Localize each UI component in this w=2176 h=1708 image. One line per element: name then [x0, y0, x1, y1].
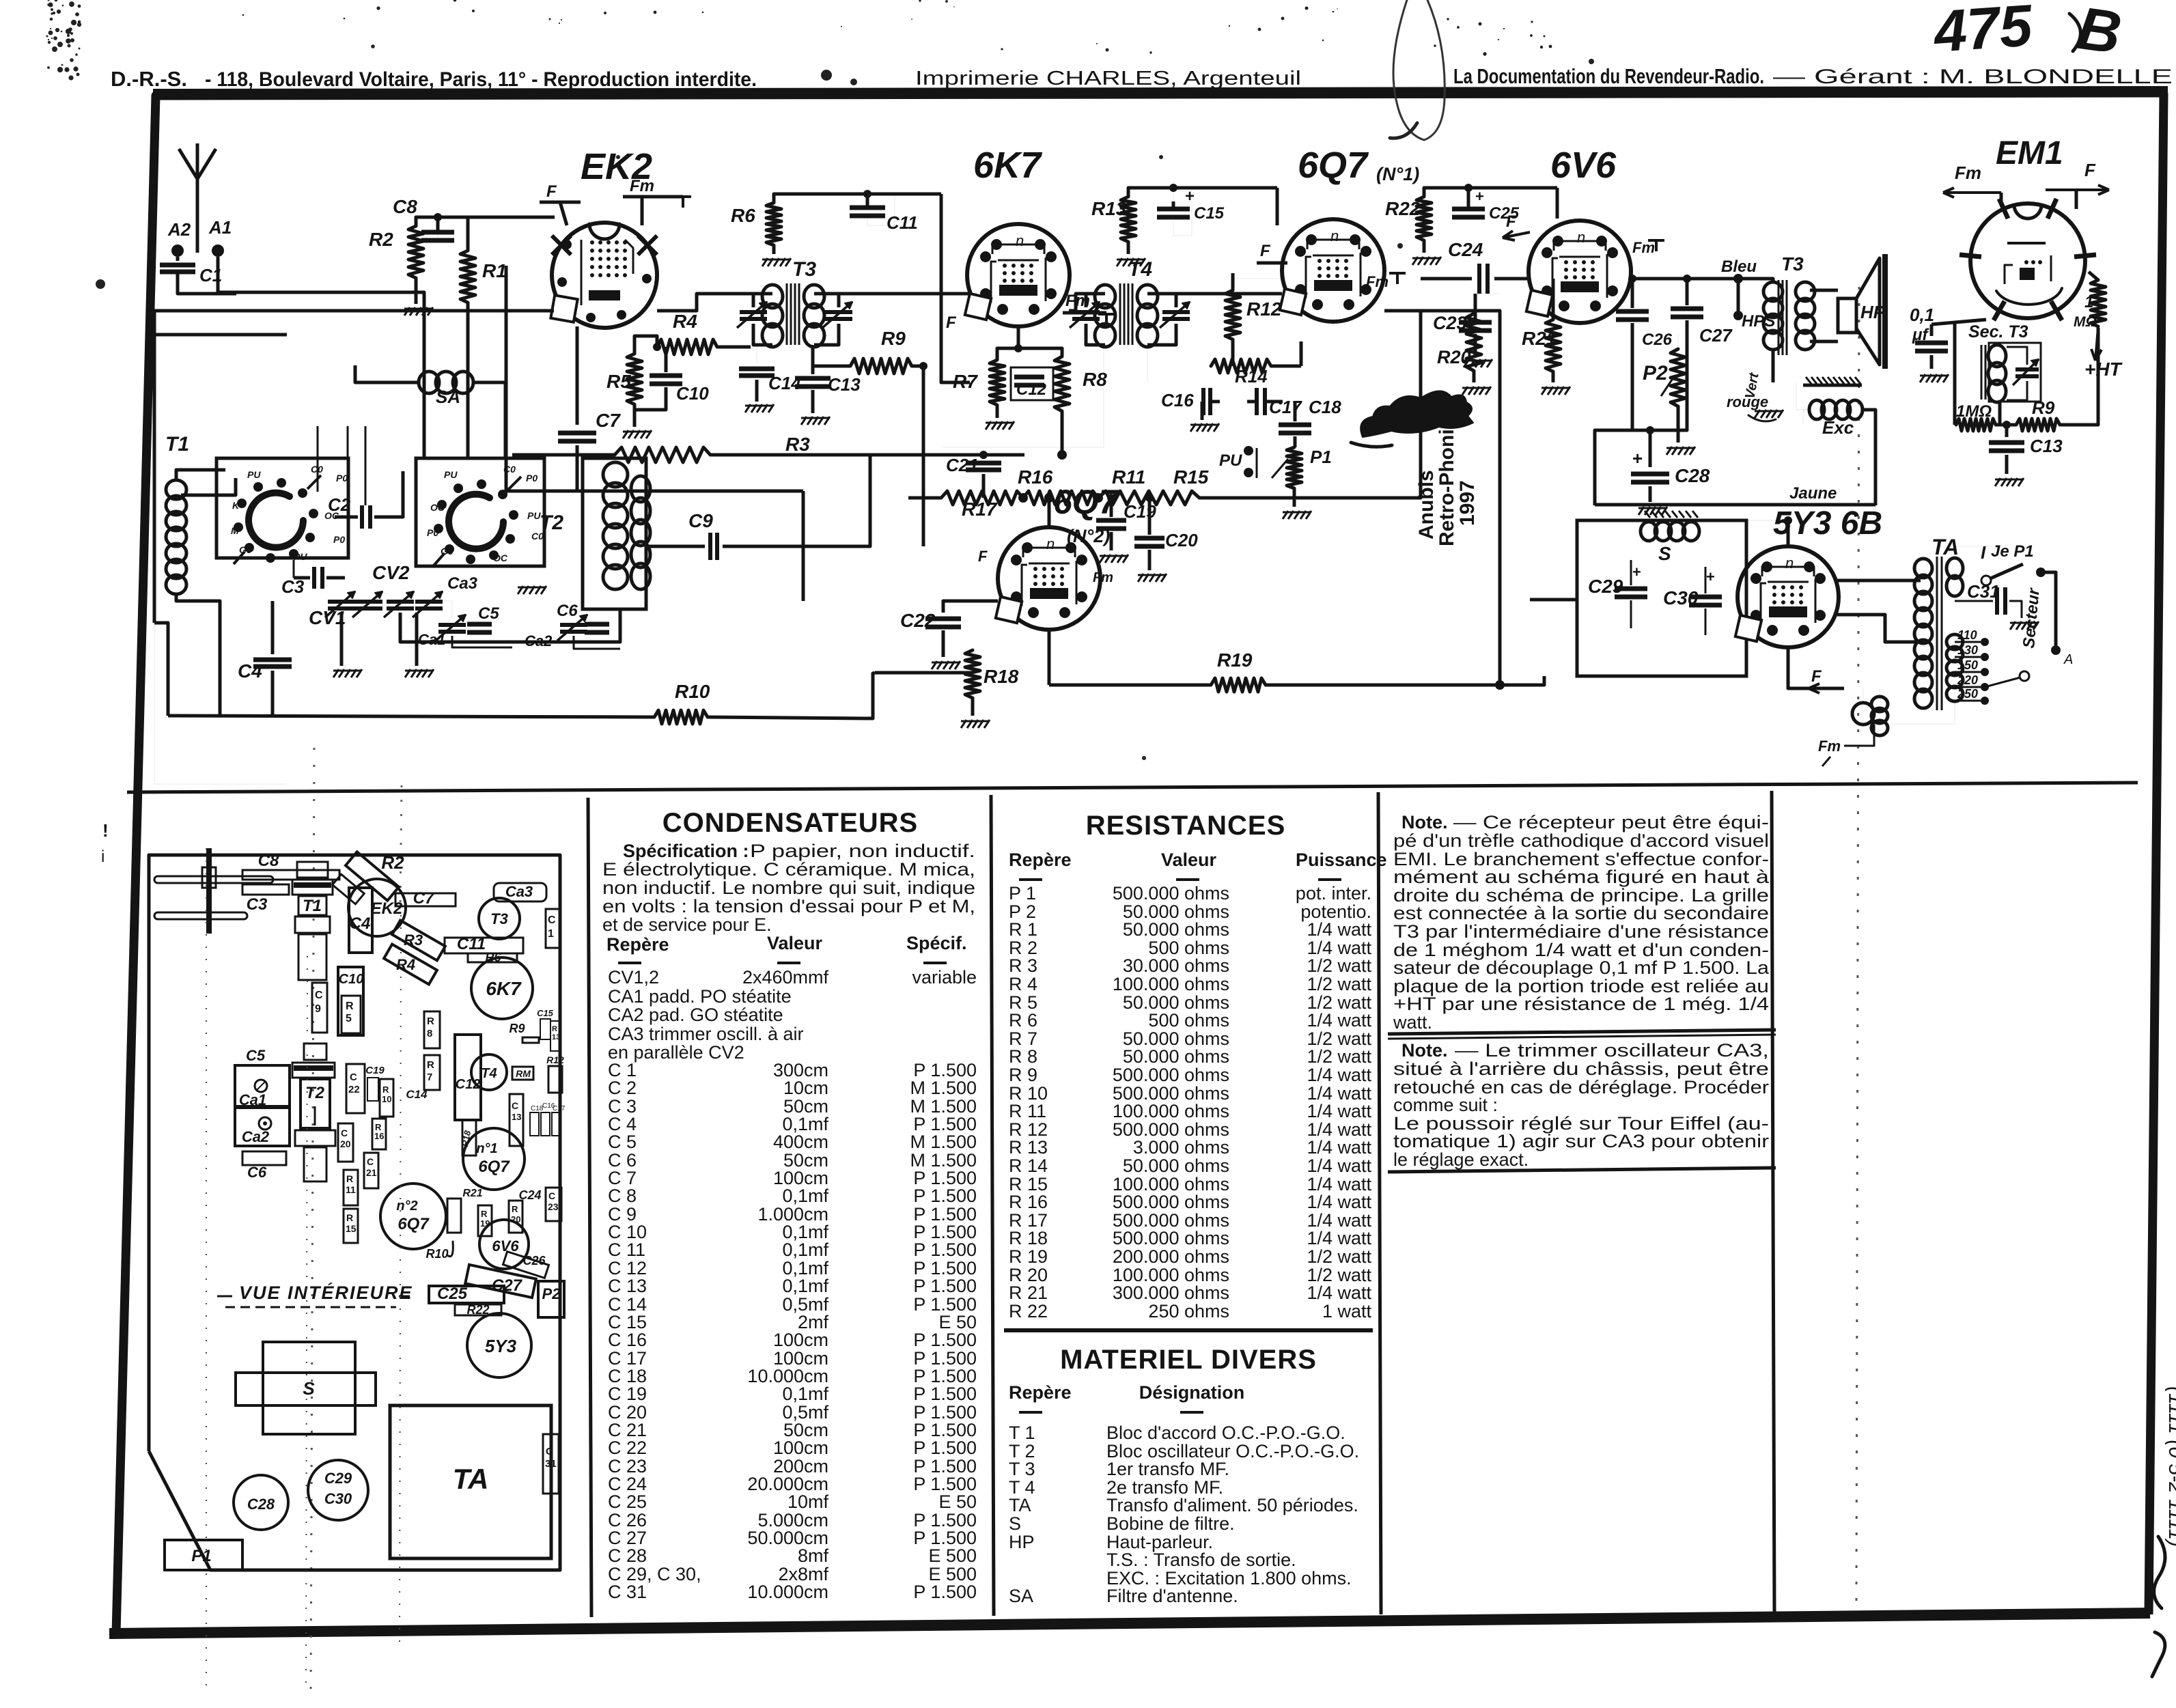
svg-text:C19: C19	[365, 1065, 385, 1076]
svg-text:R 13: R 13	[1009, 1137, 1048, 1158]
svg-text:16: 16	[374, 1131, 384, 1141]
svg-text:M 1.500: M 1.500	[910, 1132, 977, 1152]
svg-text:500.000 ohms: 500.000 ohms	[1113, 883, 1229, 904]
svg-text:1/2 watt: 1/2 watt	[1307, 974, 1371, 994]
svg-text:S: S	[303, 1378, 315, 1399]
svg-text:C26: C26	[1642, 331, 1673, 349]
svg-text:20: 20	[340, 1138, 351, 1149]
svg-text:R10: R10	[675, 681, 710, 702]
svg-text:F: F	[2084, 160, 2096, 180]
svg-text:C29: C29	[324, 1470, 352, 1487]
svg-text:C11: C11	[887, 212, 918, 233]
svg-text:1/4 watt: 1/4 watt	[1307, 1228, 1371, 1248]
svg-text:P papier, non inductif.: P papier, non inductif.	[750, 841, 975, 861]
svg-text:comme suit :: comme suit :	[1393, 1095, 1498, 1115]
svg-text:SA: SA	[1009, 1586, 1033, 1606]
svg-text:C 31: C 31	[608, 1582, 647, 1602]
svg-text:1/2 watt: 1/2 watt	[1307, 1246, 1371, 1267]
svg-text:EM1: EM1	[1996, 135, 2063, 171]
svg-text:7: 7	[427, 1072, 432, 1083]
svg-text:C 13: C 13	[608, 1276, 647, 1296]
svg-text:C16: C16	[1161, 390, 1194, 410]
svg-text:MΩ: MΩ	[2074, 314, 2097, 330]
svg-text:+: +	[1185, 187, 1195, 206]
svg-text:R 8: R 8	[1009, 1046, 1037, 1067]
svg-text:P 1.500: P 1.500	[913, 1186, 977, 1206]
svg-text:13: 13	[552, 1033, 560, 1041]
svg-text:C: C	[350, 1072, 357, 1083]
svg-text:et de service pour E.: et de service pour E.	[602, 914, 772, 935]
svg-text:C: C	[546, 1446, 553, 1457]
svg-text:21: 21	[366, 1167, 377, 1178]
svg-text:R17: R17	[962, 499, 998, 520]
svg-text:R: R	[427, 1016, 434, 1027]
svg-text:R20: R20	[1437, 347, 1471, 367]
svg-text:R21: R21	[462, 1188, 482, 1199]
svg-text:8mf: 8mf	[798, 1545, 829, 1566]
svg-text:T 1: T 1	[1009, 1423, 1035, 1443]
svg-text:Fm: Fm	[1818, 738, 1841, 755]
svg-text:P 1.500: P 1.500	[913, 1276, 977, 1296]
svg-text:R 16: R 16	[1009, 1192, 1048, 1212]
svg-text:n°2: n°2	[396, 1199, 417, 1214]
svg-text:rouge: rouge	[1727, 393, 1768, 410]
svg-text:pé d'un trèfle cathodique: pé d'un trèfle cathodique d'accord visue…	[1393, 830, 1769, 851]
svg-text:M: M	[231, 525, 239, 536]
svg-text:8: 8	[427, 1028, 432, 1039]
svg-text:C13: C13	[828, 374, 861, 395]
svg-text:pot. inter.: pot. inter.	[1296, 883, 1371, 904]
svg-text:T1: T1	[165, 433, 189, 456]
svg-text:R 6: R 6	[1009, 1010, 1037, 1031]
svg-text:+HT par une résistance de: +HT par une résistance de 1 még. 1/4	[1393, 994, 1769, 1014]
svg-text:R7: R7	[953, 371, 978, 392]
svg-text:1/2 watt: 1/2 watt	[1307, 1046, 1371, 1067]
svg-text:R13: R13	[1091, 198, 1127, 219]
svg-text:variable: variable	[912, 967, 977, 988]
svg-text:watt.: watt.	[1393, 1012, 1432, 1033]
svg-text:Repère: Repère	[606, 934, 669, 955]
svg-text:R4: R4	[673, 311, 697, 332]
svg-text:130: 130	[1957, 643, 1978, 657]
svg-text:100cm: 100cm	[773, 1330, 828, 1350]
svg-text:C18: C18	[531, 1105, 544, 1112]
svg-text:Puissance: Puissance	[1296, 850, 1387, 870]
svg-text:C6: C6	[557, 602, 578, 620]
svg-text:10cm: 10cm	[783, 1078, 828, 1098]
svg-text:R16: R16	[1018, 466, 1053, 488]
svg-text:i: i	[101, 848, 104, 866]
svg-text:C 8: C 8	[608, 1186, 637, 1206]
svg-text:R1: R1	[482, 260, 507, 281]
svg-text:E électrolytique. C céramiq: E électrolytique. C céramique. M mica,	[602, 859, 975, 880]
svg-text:R 9: R 9	[1009, 1065, 1037, 1085]
svg-text:C4: C4	[238, 660, 262, 682]
svg-text:C17: C17	[553, 1105, 566, 1112]
svg-text:Valeur: Valeur	[1161, 850, 1217, 870]
svg-text:6K7: 6K7	[973, 145, 1043, 186]
svg-text:A1: A1	[208, 217, 232, 238]
svg-text:30.000 ohms: 30.000 ohms	[1123, 955, 1229, 976]
svg-text:100cm: 100cm	[773, 1438, 828, 1458]
svg-text:15: 15	[346, 1223, 357, 1234]
svg-text:+: +	[1632, 563, 1641, 580]
svg-text:— Ce récepteur peut être: — Ce récepteur peut être équi-	[1453, 812, 1769, 832]
svg-text:C24: C24	[1448, 239, 1483, 260]
svg-text:C: C	[315, 990, 323, 1001]
svg-text:C 25: C 25	[608, 1492, 647, 1512]
svg-text:R 14: R 14	[1009, 1156, 1048, 1176]
svg-text:300.000 ohms: 300.000 ohms	[1113, 1283, 1229, 1303]
svg-text:+: +	[1475, 188, 1484, 205]
svg-text:P0: P0	[333, 534, 345, 545]
svg-text:C30: C30	[324, 1490, 352, 1507]
svg-text:VUE INTÉRIEURE: VUE INTÉRIEURE	[239, 1282, 413, 1303]
svg-text:C 16: C 16	[608, 1330, 647, 1350]
svg-text:R4: R4	[396, 956, 415, 973]
svg-text:Spécification :: Spécification :	[623, 841, 749, 861]
svg-text:C15: C15	[1194, 204, 1225, 223]
svg-text:R9: R9	[509, 1022, 525, 1035]
svg-text:1MΩ: 1MΩ	[1956, 402, 1992, 421]
svg-text:Exc: Exc	[1822, 417, 1854, 438]
svg-text:R8: R8	[1083, 369, 1107, 390]
svg-text:mément au schéma figuré: mément au schéma figuré en haut à	[1393, 867, 1770, 887]
svg-text:T3: T3	[792, 258, 816, 281]
svg-text:50.000 ohms: 50.000 ohms	[1123, 1046, 1229, 1067]
svg-text:F: F	[1260, 242, 1271, 260]
svg-text:n: n	[1046, 535, 1055, 552]
svg-text:R 19: R 19	[1009, 1246, 1048, 1267]
svg-text:C15: C15	[537, 1008, 554, 1018]
svg-text:F: F	[978, 548, 988, 565]
svg-text:R10: R10	[426, 1247, 448, 1261]
svg-text:250 ohms: 250 ohms	[1148, 1301, 1229, 1321]
svg-text:T1: T1	[303, 897, 322, 915]
svg-text:Bobine de filtre.: Bobine de filtre.	[1106, 1513, 1235, 1534]
svg-text:6Q7: 6Q7	[1298, 145, 1369, 186]
svg-text:50.000 ohms: 50.000 ohms	[1123, 1156, 1229, 1176]
svg-text:11: 11	[346, 1184, 356, 1195]
svg-text:OC: OC	[430, 502, 445, 513]
svg-text:Retro-Phonia: Retro-Phonia	[1436, 417, 1458, 546]
svg-text:200.000 ohms: 200.000 ohms	[1113, 1246, 1229, 1267]
svg-text:C11: C11	[457, 935, 486, 953]
svg-text:C8: C8	[393, 196, 417, 217]
svg-text:500.000 ohms: 500.000 ohms	[1113, 1065, 1229, 1085]
svg-text:R9: R9	[881, 328, 906, 349]
svg-text:100.000 ohms: 100.000 ohms	[1113, 1101, 1229, 1121]
svg-text:T2: T2	[540, 512, 563, 534]
svg-text:13: 13	[512, 1112, 521, 1122]
svg-text:1/4 watt: 1/4 watt	[1307, 1192, 1371, 1212]
svg-text:Je P1: Je P1	[1991, 542, 2034, 561]
svg-text:C4: C4	[350, 914, 371, 933]
svg-text:C5: C5	[478, 604, 499, 623]
svg-text:1/2 watt: 1/2 watt	[1307, 955, 1371, 976]
svg-text:Désignation: Désignation	[1139, 1382, 1245, 1403]
svg-text:R: R	[512, 1204, 518, 1214]
svg-text:C31: C31	[1967, 581, 2000, 602]
svg-text:CV2: CV2	[372, 562, 410, 583]
svg-text:3.000 ohms: 3.000 ohms	[1133, 1137, 1229, 1158]
svg-text:0,1: 0,1	[1910, 305, 1934, 325]
svg-text:1/4 watt: 1/4 watt	[1307, 919, 1371, 940]
svg-text:C8: C8	[258, 852, 279, 870]
svg-text:T3: T3	[1781, 253, 1804, 275]
svg-text:1997: 1997	[1456, 480, 1479, 526]
svg-text:C: C	[548, 914, 556, 926]
svg-text:R: R	[552, 1025, 557, 1033]
svg-text:500 ohms: 500 ohms	[1148, 1010, 1229, 1031]
svg-text:C 2: C 2	[608, 1078, 637, 1098]
svg-text:C12: C12	[1016, 380, 1047, 399]
svg-text:R: R	[427, 1059, 434, 1071]
svg-text:5Y3: 5Y3	[485, 1336, 517, 1356]
svg-text:0,1mf: 0,1mf	[782, 1186, 828, 1206]
svg-text:1/4 watt: 1/4 watt	[1307, 1101, 1371, 1121]
svg-text:31: 31	[545, 1458, 557, 1470]
svg-text:R12: R12	[1246, 298, 1282, 320]
svg-text:Ca3: Ca3	[447, 574, 478, 593]
svg-text:— Gérant : M. BLONDELLE: — Gérant : M. BLONDELLE	[1773, 66, 2173, 88]
svg-text:1 watt: 1 watt	[1322, 1301, 1372, 1321]
svg-text:Anubis: Anubis	[1415, 470, 1438, 540]
svg-text:6K7: 6K7	[486, 978, 522, 999]
svg-text:0,1mf: 0,1mf	[782, 1240, 828, 1260]
svg-text:P0: P0	[336, 473, 348, 484]
svg-text:150: 150	[1957, 658, 1978, 672]
svg-text:CV1,2: CV1,2	[608, 967, 659, 988]
svg-text:1/4 watt: 1/4 watt	[1307, 1137, 1371, 1158]
svg-text:P 1.500: P 1.500	[913, 1240, 977, 1260]
svg-text:+HT: +HT	[2084, 359, 2123, 380]
svg-text:C26: C26	[522, 1254, 546, 1268]
svg-text:Filtre d'antenne.: Filtre d'antenne.	[1106, 1586, 1238, 1606]
svg-text:10: 10	[382, 1094, 391, 1104]
svg-text:0,1mf: 0,1mf	[782, 1384, 828, 1404]
svg-text:1/4 watt: 1/4 watt	[1307, 1156, 1371, 1176]
svg-text:6Q7: 6Q7	[478, 1158, 510, 1176]
svg-text:OC: OC	[493, 552, 508, 563]
svg-text:Ca3: Ca3	[505, 883, 533, 900]
svg-text:C3: C3	[247, 895, 268, 914]
svg-text:100.000 ohms: 100.000 ohms	[1113, 974, 1229, 994]
svg-text:C5: C5	[246, 1047, 266, 1064]
svg-text:(N°2): (N°2)	[1067, 526, 1110, 546]
svg-text:R3: R3	[404, 932, 423, 949]
svg-text:+: +	[1706, 568, 1715, 585]
svg-text:R 1: R 1	[1009, 919, 1037, 940]
svg-text:23: 23	[548, 1201, 559, 1212]
svg-text:6V6: 6V6	[492, 1237, 519, 1255]
svg-text:SA: SA	[436, 387, 460, 407]
svg-text:C: C	[341, 1128, 348, 1138]
svg-text:n°1: n°1	[476, 1141, 497, 1156]
svg-text:R 3: R 3	[1009, 955, 1037, 976]
svg-text:R 11: R 11	[1009, 1101, 1046, 1121]
svg-text:C23: C23	[1433, 313, 1467, 333]
svg-text:TA: TA	[1009, 1495, 1031, 1515]
svg-text:C 5: C 5	[608, 1132, 637, 1152]
svg-text:F: F	[1811, 667, 1822, 686]
svg-text:R3: R3	[785, 434, 810, 455]
svg-text:R5: R5	[606, 371, 631, 392]
svg-text:1: 1	[2084, 293, 2093, 311]
svg-text:Repère: Repère	[1009, 850, 1072, 870]
svg-text:Repère: Repère	[1009, 1382, 1072, 1403]
svg-text:C 11: C 11	[608, 1240, 645, 1260]
svg-text:Fm: Fm	[1366, 273, 1389, 290]
svg-text:tomatique 1) agir sur CA3: tomatique 1) agir sur CA3 pour obtenir	[1393, 1131, 1769, 1151]
svg-text:PU: PU	[294, 551, 307, 562]
svg-text:C19: C19	[1124, 501, 1156, 522]
svg-text:475: 475	[1931, 0, 2035, 65]
svg-text:A2: A2	[167, 219, 191, 240]
svg-text:T3 par l'intermédiaire d: T3 par l'intermédiaire d'une résistance	[1393, 921, 1769, 942]
svg-text:CONDENSATEURS: CONDENSATEURS	[662, 808, 919, 838]
svg-text:C28: C28	[247, 1496, 275, 1513]
svg-text:R 21: R 21	[1009, 1283, 1048, 1303]
svg-text:(1111 (0 5-2 1111): (1111 (0 5-2 1111)	[2164, 1386, 2176, 1547]
svg-text:R18: R18	[984, 666, 1019, 687]
svg-text:n: n	[1785, 555, 1794, 572]
svg-text:F: F	[546, 182, 557, 201]
svg-text:P 1.500: P 1.500	[913, 1384, 977, 1404]
svg-text:R22: R22	[466, 1303, 489, 1317]
svg-text:9: 9	[315, 1003, 321, 1015]
svg-text:CA2 pad. GO stéatite: CA2 pad. GO stéatite	[608, 1005, 783, 1025]
svg-text:T2: T2	[305, 1084, 325, 1102]
svg-text:P2: P2	[542, 1285, 561, 1302]
svg-text:R: R	[346, 1212, 353, 1223]
svg-text:10mf: 10mf	[787, 1492, 829, 1512]
svg-text:C 22: C 22	[608, 1438, 647, 1458]
svg-text:Fm: Fm	[1093, 570, 1113, 585]
svg-text:1/4 watt: 1/4 watt	[1307, 1010, 1371, 1031]
svg-text:C27: C27	[1699, 325, 1733, 346]
svg-text:T3: T3	[490, 910, 508, 927]
svg-text:22: 22	[348, 1084, 360, 1095]
svg-text:R15: R15	[1173, 466, 1209, 488]
svg-text:CA1 padd. PO stéatite: CA1 padd. PO stéatite	[608, 986, 792, 1007]
svg-text:+: +	[1632, 448, 1643, 468]
svg-text:RESISTANCES: RESISTANCES	[1086, 811, 1286, 841]
svg-text:le réglage exact.: le réglage exact.	[1393, 1149, 1529, 1170]
svg-text:C6: C6	[247, 1164, 267, 1181]
svg-text:Bloc d'accord O.C.-P.O.-G.O.: Bloc d'accord O.C.-P.O.-G.O.	[1106, 1423, 1345, 1443]
svg-text:n: n	[1330, 227, 1339, 244]
svg-text:P 1.500: P 1.500	[913, 1582, 977, 1602]
svg-text:Ca1: Ca1	[239, 1091, 266, 1108]
svg-text:Fm: Fm	[1955, 163, 1981, 183]
svg-text:G0: G0	[239, 544, 252, 555]
svg-text:— Le trimmer oscillateur C: — Le trimmer oscillateur CA3,	[1455, 1040, 1769, 1061]
svg-text:6V6: 6V6	[1550, 145, 1617, 186]
svg-text:500.000 ohms: 500.000 ohms	[1113, 1192, 1229, 1212]
svg-text:n: n	[1577, 229, 1585, 246]
svg-text:C25: C25	[437, 1285, 468, 1303]
svg-text:0,1mf: 0,1mf	[782, 1276, 828, 1296]
svg-text:situé à l'arrière du châss: situé à l'arrière du châssis, peut être	[1393, 1059, 1769, 1079]
svg-text:Bleu: Bleu	[1721, 257, 1757, 276]
svg-text:HP: HP	[1860, 302, 1886, 322]
svg-text:- 118, Boulevard Voltaire, Par: - 118, Boulevard Voltaire, Paris, 11° - …	[205, 68, 757, 91]
svg-text:F: F	[946, 313, 957, 332]
svg-text:R 22: R 22	[1009, 1301, 1048, 1321]
svg-text:C21: C21	[946, 455, 979, 475]
svg-text:Spécif.: Spécif.	[906, 933, 967, 953]
svg-text:Fm: Fm	[630, 177, 654, 195]
svg-text:TA: TA	[1931, 535, 1959, 559]
svg-text:P1: P1	[1310, 447, 1332, 467]
svg-text:C: C	[367, 1156, 374, 1167]
svg-text:K: K	[232, 500, 240, 511]
svg-text:1/4 watt: 1/4 watt	[1307, 1065, 1371, 1085]
svg-text:PU: PU	[444, 469, 458, 480]
svg-text:R 4: R 4	[1009, 974, 1037, 994]
svg-text:P2: P2	[1643, 362, 1668, 384]
svg-text:6Q7: 6Q7	[1053, 483, 1119, 521]
svg-text:50.000 ohms: 50.000 ohms	[1123, 919, 1229, 940]
svg-text:1/4 watt: 1/4 watt	[1307, 1283, 1371, 1303]
svg-text:Ca2: Ca2	[242, 1128, 270, 1145]
svg-text:P0: P0	[526, 473, 538, 484]
svg-text:S: S	[1658, 543, 1671, 564]
svg-text:P 1.500: P 1.500	[913, 1438, 977, 1458]
svg-text:T 3: T 3	[1009, 1459, 1035, 1479]
svg-text:S: S	[1009, 1513, 1021, 1534]
svg-text:P0: P0	[427, 527, 438, 538]
svg-text:R2: R2	[381, 852, 404, 873]
svg-text:R 18: R 18	[1009, 1228, 1048, 1248]
svg-text:C14: C14	[406, 1088, 428, 1101]
svg-text:EK2: EK2	[371, 899, 403, 918]
svg-text:R22: R22	[1385, 198, 1421, 219]
svg-text:Sec. T3: Sec. T3	[1968, 322, 2028, 341]
svg-text:C10: C10	[339, 972, 364, 987]
svg-text:TA: TA	[453, 1463, 489, 1495]
svg-text:R2: R2	[369, 229, 393, 250]
svg-text:Imprimerie CHARLES, Argenteuil: Imprimerie CHARLES, Argenteuil	[915, 68, 1301, 89]
svg-text:R: R	[382, 1084, 389, 1095]
svg-text:non inductif. Le nombre qu: non inductif. Le nombre qui suit, indiqu…	[602, 878, 975, 898]
svg-text:P1: P1	[191, 1547, 211, 1565]
svg-text:P 1: P 1	[1009, 883, 1036, 904]
svg-text:C24: C24	[518, 1188, 541, 1202]
svg-text:R19: R19	[1217, 649, 1253, 671]
svg-text:C 28: C 28	[608, 1545, 647, 1566]
svg-text:D.-R.-S.: D.-R.-S.	[111, 67, 187, 91]
svg-text:sateur de découplage 0,1 m: sateur de découplage 0,1 mf P 1.500. La	[1393, 957, 1770, 978]
svg-text:R: R	[481, 1209, 488, 1219]
svg-text:R21: R21	[1522, 328, 1557, 349]
svg-text:C28: C28	[1675, 465, 1710, 486]
svg-text:CA3 trimmer oscill. à air: CA3 trimmer oscill. à air	[608, 1024, 804, 1044]
svg-text:C: C	[548, 1190, 555, 1201]
svg-text:C18: C18	[1309, 397, 1341, 417]
svg-text:HP: HP	[1009, 1532, 1035, 1552]
svg-text:PU: PU	[247, 469, 261, 480]
svg-text:R14: R14	[1235, 366, 1268, 387]
svg-text:Ca1: Ca1	[418, 631, 445, 648]
svg-text:C13: C13	[2030, 436, 2063, 456]
svg-text:I: I	[1981, 542, 1986, 563]
svg-text:Transfo d'aliment. 50 pério: Transfo d'aliment. 50 périodes.	[1106, 1495, 1358, 1515]
svg-text:MATERIEL DIVERS: MATERIEL DIVERS	[1060, 1345, 1317, 1375]
svg-text:La Documentation du Revendeur-: La Documentation du Revendeur-Radio.	[1453, 64, 1764, 88]
svg-text:R: R	[346, 1173, 353, 1184]
